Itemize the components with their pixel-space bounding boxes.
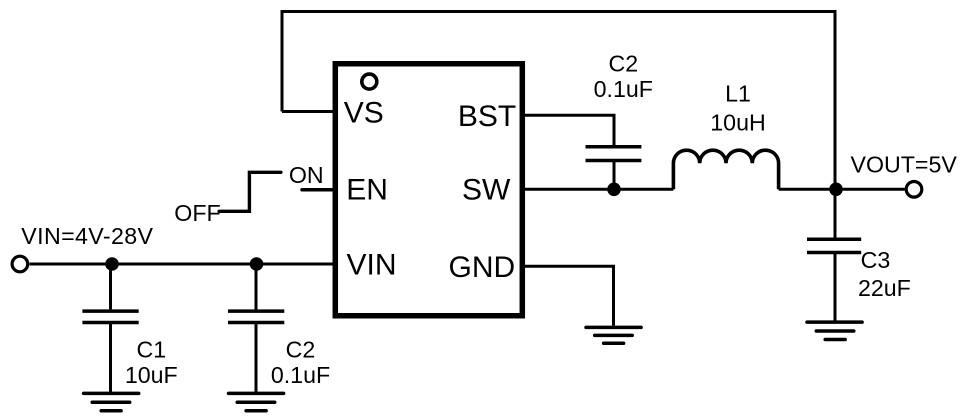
capacitor C2 input bbox=[228, 264, 284, 393]
svg-text:VS: VS bbox=[344, 96, 384, 129]
wire GND pin stub bbox=[524, 266, 614, 325]
wire SW stub bbox=[524, 188, 673, 191]
svg-text:SW: SW bbox=[462, 174, 511, 207]
svg-text:ON: ON bbox=[289, 162, 324, 188]
wire L1 to VOUT node bbox=[779, 188, 836, 191]
svg-text:EN: EN bbox=[346, 173, 388, 206]
svg-text:GND: GND bbox=[449, 251, 516, 284]
IC U1 body bbox=[335, 64, 522, 316]
svg-text:0.1uF: 0.1uF bbox=[271, 362, 330, 388]
svg-text:C1: C1 bbox=[136, 337, 166, 363]
capacitor C3 bbox=[807, 189, 861, 321]
svg-text:C2: C2 bbox=[286, 337, 316, 363]
capacitor C2 bootstrap bbox=[586, 147, 642, 161]
capacitor C1 bbox=[82, 264, 138, 393]
wire EN stub bbox=[302, 188, 336, 192]
svg-text:C3: C3 bbox=[861, 247, 891, 273]
wire BST stub to C2 bootstrap bbox=[524, 115, 614, 145]
wire VS stub bbox=[282, 110, 336, 113]
svg-text:BST: BST bbox=[458, 100, 516, 133]
svg-text:10uF: 10uF bbox=[125, 362, 178, 388]
ground at C3 bbox=[807, 322, 862, 339]
svg-text:10uH: 10uH bbox=[710, 109, 765, 135]
svg-text:C2: C2 bbox=[608, 51, 638, 77]
ground at C1 bbox=[84, 393, 139, 410]
ground at C2 input bbox=[229, 393, 284, 410]
svg-text:22uF: 22uF bbox=[858, 275, 911, 301]
wire VIN input line bbox=[30, 263, 337, 266]
terminal VOUT output bbox=[906, 182, 922, 198]
svg-text:VIN=4V-28V: VIN=4V-28V bbox=[21, 223, 153, 249]
svg-text:OFF: OFF bbox=[174, 200, 220, 226]
svg-text:0.1uF: 0.1uF bbox=[594, 76, 653, 102]
ground at GND pin bbox=[586, 327, 641, 343]
junction dot SW node bbox=[607, 183, 621, 197]
junction dot VOUT node bbox=[829, 183, 843, 197]
junction dot at C2 bbox=[250, 257, 264, 271]
svg-text:VIN: VIN bbox=[347, 249, 397, 282]
wire C2 bootstrap to SW node bbox=[613, 162, 616, 189]
U1 pin-1 marker bbox=[362, 74, 377, 89]
wire enable ON/OFF link bbox=[219, 172, 281, 211]
svg-text:L1: L1 bbox=[725, 81, 751, 107]
wire VOUT node to terminal bbox=[836, 188, 906, 191]
wire top feedback rail VS to VOUT bbox=[282, 12, 835, 190]
terminal VIN input bbox=[12, 256, 28, 272]
junction dot at C1 bbox=[105, 257, 119, 271]
svg-text:VOUT=5V: VOUT=5V bbox=[851, 151, 958, 177]
inductor L1 bbox=[673, 150, 778, 189]
